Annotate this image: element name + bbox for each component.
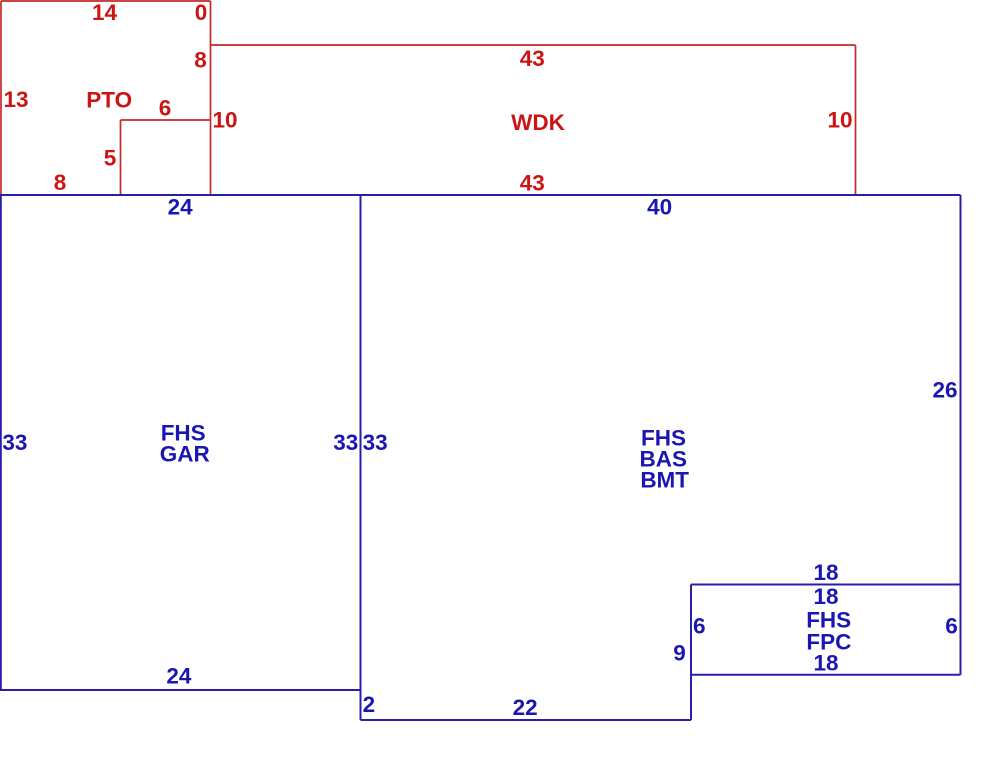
svg-text:6: 6 xyxy=(159,96,172,121)
svg-text:WDK: WDK xyxy=(511,110,565,135)
svg-text:14: 14 xyxy=(92,0,118,25)
wire GAR/BAS divider vertical xyxy=(360,195,362,720)
wire FPC left vertical xyxy=(690,585,692,721)
wire main right edge xyxy=(960,195,962,675)
svg-text:0: 0 xyxy=(195,0,208,25)
wire PTO top edge xyxy=(1,0,211,2)
wire main top edge xyxy=(0,194,961,196)
svg-text:8: 8 xyxy=(194,48,207,73)
svg-text:BMT: BMT xyxy=(640,468,689,493)
svg-text:33: 33 xyxy=(363,430,388,455)
svg-text:5: 5 xyxy=(104,146,117,171)
svg-text:10: 10 xyxy=(827,108,852,133)
svg-text:24: 24 xyxy=(168,195,194,220)
svg-text:8: 8 xyxy=(54,170,67,195)
svg-text:22: 22 xyxy=(513,695,538,720)
wire FPC bottom edge xyxy=(691,674,961,676)
svg-text:9: 9 xyxy=(673,641,686,666)
wire WDK right edge xyxy=(855,45,857,195)
svg-text:PTO: PTO xyxy=(86,88,132,113)
svg-text:18: 18 xyxy=(813,584,838,609)
svg-text:6: 6 xyxy=(693,614,706,639)
wire PTO step vertical xyxy=(120,120,122,195)
svg-text:43: 43 xyxy=(520,46,545,71)
wire GAR left edge xyxy=(0,195,2,690)
svg-text:33: 33 xyxy=(2,430,27,455)
wire PTO right edge xyxy=(210,1,212,195)
svg-text:24: 24 xyxy=(166,664,192,689)
wire PTO step horizontal xyxy=(121,119,211,121)
wire BAS bottom edge xyxy=(361,719,692,721)
wire FPC top edge xyxy=(691,584,961,586)
svg-text:43: 43 xyxy=(520,171,545,196)
svg-text:26: 26 xyxy=(932,378,957,403)
svg-text:18: 18 xyxy=(813,651,838,676)
wire GAR bottom edge xyxy=(0,689,361,691)
wire WDK top edge xyxy=(211,44,856,46)
svg-text:18: 18 xyxy=(813,560,838,585)
wire PTO left edge xyxy=(0,1,2,195)
svg-text:GAR: GAR xyxy=(160,442,210,467)
svg-text:10: 10 xyxy=(212,108,237,133)
svg-text:6: 6 xyxy=(945,614,958,639)
svg-text:33: 33 xyxy=(333,430,358,455)
svg-text:13: 13 xyxy=(3,87,28,112)
svg-text:40: 40 xyxy=(647,195,672,220)
svg-text:2: 2 xyxy=(363,692,376,717)
